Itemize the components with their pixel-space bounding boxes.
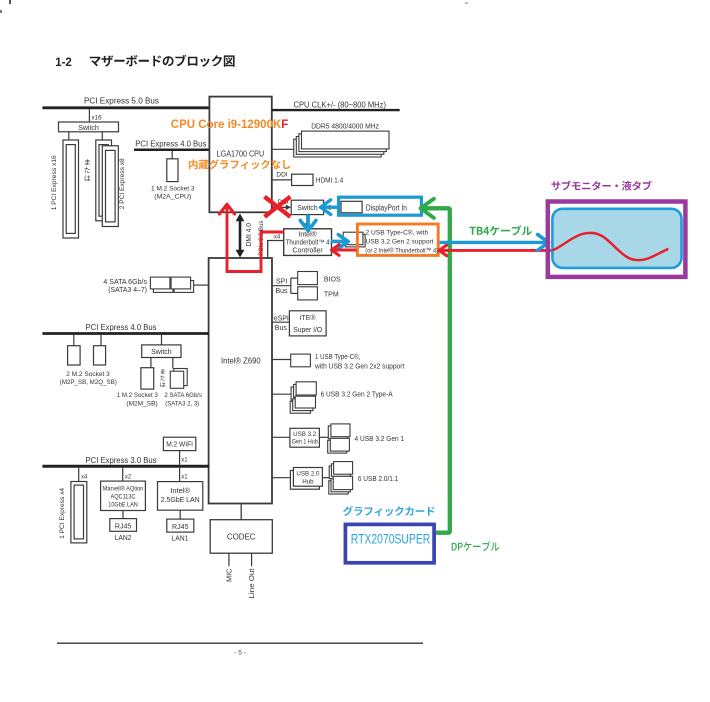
wire PCI Express 4.0 bus line (chipset) <box>42 332 208 335</box>
svg-text:2 PCI Express x8: 2 PCI Express x8 <box>119 158 126 209</box>
wire PCI Express 3.0 bus line <box>42 465 209 468</box>
svg-text:x4: x4 <box>274 235 281 241</box>
BIOS block <box>298 272 341 285</box>
SATA connector pair (SATA3 2,3) <box>170 369 187 389</box>
label PCIe 3.0 Bus (vertical) <box>258 221 265 256</box>
wire chipset to USB 2.0 hub <box>272 477 290 479</box>
svg-text:Bus: Bus <box>275 325 288 332</box>
bus label PCI Express 3.0 Bus <box>86 456 157 465</box>
wire chipset to USB 3.2 gen2 ports <box>272 393 294 395</box>
label または (vertical) <box>85 159 91 181</box>
svg-text:AQC113C: AQC113C <box>111 494 136 501</box>
wire marvell to RJ45 <box>122 511 124 519</box>
wire SATA to chipset <box>194 284 209 286</box>
annotation グラフィックカード <box>343 506 435 516</box>
M.2 socket M2A block <box>167 159 178 182</box>
USB 2.0 port stack upper <box>329 462 352 479</box>
wire switch3 to SATA pair <box>172 358 174 369</box>
wire CPU CLK line <box>272 109 400 111</box>
USB 3.2 gen2 port stack upper <box>291 382 316 400</box>
USB 3.2 gen1 port stack lower <box>328 438 350 453</box>
svg-text:(M2M_SB): (M2M_SB) <box>126 400 157 407</box>
DDR5 DIMM stack <box>294 131 389 157</box>
DMI 4.0 double arrow cpu-chipset <box>236 214 245 258</box>
DisplayPort In port block <box>341 201 362 213</box>
svg-text:x1: x1 <box>181 458 188 464</box>
svg-text:DMI 4.0: DMI 4.0 <box>246 223 253 247</box>
wire bus to switch1 <box>88 109 90 122</box>
svg-text:Intel®: Intel® <box>170 486 190 495</box>
svg-text:Switch: Switch <box>151 349 172 356</box>
TPM block <box>298 287 339 300</box>
PCI Express x16 slot <box>63 140 79 238</box>
label CPU CLK+/- (80~800 MHz) <box>294 100 387 109</box>
annotation サブモニター・液タブ <box>551 181 652 191</box>
svg-text:(or 2 Intel® Thunderbolt™ 4): (or 2 Intel® Thunderbolt™ 4) <box>365 247 438 255</box>
wire bus to intel lan x1 <box>180 468 189 482</box>
svg-text:(SATA3 4–7): (SATA3 4–7) <box>108 287 147 294</box>
svg-text:DDI: DDI <box>276 171 287 178</box>
svg-text:1 M.2 Socket 3: 1 M.2 Socket 3 <box>117 392 158 399</box>
svg-text:Line Out: Line Out <box>249 568 256 598</box>
wire bus to M2Q socket <box>100 335 102 346</box>
wire chipset to USB 3.2 gen1 hub <box>272 436 290 438</box>
red wire thunderbolt to CPU path <box>219 204 283 271</box>
svg-text:CPU CLK+/- (80~800 MHz): CPU CLK+/- (80~800 MHz) <box>294 100 387 109</box>
wire hub to gen1 ports <box>319 436 328 438</box>
svg-text:1 PCI Express x16: 1 PCI Express x16 <box>51 155 58 210</box>
thunderbolt USB-C highlight box (orange) <box>357 224 438 255</box>
wire bus to switch3 <box>161 335 163 345</box>
svg-text:Switch: Switch <box>297 205 318 212</box>
svg-text:1 PCI Express x4: 1 PCI Express x4 <box>59 488 66 539</box>
svg-text:RJ45: RJ45 <box>172 522 189 531</box>
DisplayPort In highlight box (blue) <box>339 197 422 215</box>
page heading 1-2 <box>55 57 72 69</box>
label 2 M.2 Socket 3 (M2P_SB, M2Q_SB) <box>60 371 117 386</box>
label 6 USB 3.2 Gen 2 Type-A <box>321 391 393 398</box>
svg-text:LAN1: LAN1 <box>172 534 189 543</box>
USB 3.2 gen2 port stack lower <box>290 396 315 413</box>
red wire TB4 return line monitor to USB-C box <box>439 245 554 256</box>
monitor screen (tablet) <box>552 209 681 268</box>
svg-text:x16: x16 <box>92 114 103 121</box>
svg-text:2 SATA 6Gb/s: 2 SATA 6Gb/s <box>164 392 202 399</box>
label 1 PCI Express x4 <box>59 488 66 539</box>
wire cpu to DDR5 <box>272 148 295 150</box>
svg-text:4 USB 3.2 Gen 1: 4 USB 3.2 Gen 1 <box>355 436 405 443</box>
label または small (vertical) <box>160 369 165 387</box>
svg-text:Controller: Controller <box>292 248 323 255</box>
label 1 M.2 Socket 3 (M2A_CPU) <box>151 185 195 200</box>
svg-text:with USB 3.2 Gen 2x2 support: with USB 3.2 Gen 2x2 support <box>314 363 404 370</box>
svg-text:iTE®: iTE® <box>300 314 317 322</box>
svg-text:1 M.2 Socket 3: 1 M.2 Socket 3 <box>151 185 195 192</box>
blue arrow switch2 down to controller <box>300 214 316 230</box>
label 2 PCI Express x8 <box>119 158 126 209</box>
svg-text:MIC: MIC <box>226 569 233 583</box>
label SPI Bus <box>276 279 289 296</box>
label RTX2070SUPER <box>351 531 431 547</box>
wire bus to M2A socket <box>171 151 173 159</box>
footer page number <box>234 649 246 656</box>
intel 2.5GbE lan block <box>158 482 203 511</box>
svg-text:RJ45: RJ45 <box>115 521 132 530</box>
switch block SW3 <box>142 345 181 358</box>
svg-text:Super I/O: Super I/O <box>293 327 323 334</box>
annotation DPケーブル <box>452 541 500 551</box>
svg-text:TPM: TPM <box>324 291 339 298</box>
svg-text:Marvell® AQtion: Marvell® AQtion <box>103 486 144 493</box>
codec block <box>210 520 272 554</box>
label 1 PCI Express x16 <box>51 155 58 210</box>
M.2 socket M2Q block <box>94 346 106 365</box>
M.2 WIFI block <box>163 437 195 450</box>
svg-text:Intel® Z690: Intel® Z690 <box>221 355 261 365</box>
super io block iTE <box>289 311 326 336</box>
blue arrow controller to USB-C port <box>331 235 349 249</box>
svg-text:1-2: 1-2 <box>55 57 72 69</box>
svg-text:Thunderbolt™ 4: Thunderbolt™ 4 <box>286 240 330 247</box>
svg-text:HDMI 1.4: HDMI 1.4 <box>316 178 343 185</box>
svg-text:x4: x4 <box>81 475 88 481</box>
bus label PCI Express 4.0 Bus (chipset) <box>86 323 157 332</box>
svg-text:x1: x1 <box>181 475 188 481</box>
PCI Express x8 slot pair <box>96 140 119 227</box>
label 4 USB 3.2 Gen 1 <box>355 436 405 443</box>
svg-text:SPI: SPI <box>276 279 287 286</box>
wire bus to marvell lan x2 <box>123 468 132 481</box>
HDMI port block <box>292 174 344 185</box>
wire bus to PCIe x4 slot <box>79 468 88 482</box>
svg-text:M.2 WIFI: M.2 WIFI <box>166 442 193 449</box>
svg-text:Hub: Hub <box>302 478 314 485</box>
monitor outline box (purple) <box>548 202 686 277</box>
cpu block LGA1700 <box>209 97 271 213</box>
svg-text:(SATA3 2, 3): (SATA3 2, 3) <box>165 400 199 407</box>
label 4 SATA 6Gb/s (SATA3 4-7) <box>103 279 147 294</box>
svg-text:RTX2070SUPER: RTX2070SUPER <box>351 531 431 547</box>
M.2 socket M2M block <box>141 368 154 389</box>
label x16 <box>92 114 103 121</box>
svg-text:(M2A_CPU): (M2A_CPU) <box>154 193 191 200</box>
USB type-C 2x2 port block <box>291 354 311 367</box>
wire cpu to HDMI port <box>272 179 292 181</box>
svg-text:2.5GbE LAN: 2.5GbE LAN <box>161 495 200 504</box>
black arrow DisplayPort In to switch2 <box>325 205 337 211</box>
marvell aqtion lan block <box>101 481 146 510</box>
svg-text:4 SATA 6Gb/s: 4 SATA 6Gb/s <box>103 279 147 286</box>
svg-text:(M2P_SB, M2Q_SB): (M2P_SB, M2Q_SB) <box>60 379 117 386</box>
wire chipset SPI bus <box>272 278 298 293</box>
label DisplayPort In <box>366 203 407 212</box>
wire hub to usb2 ports <box>322 477 331 479</box>
wire codec MIC <box>228 553 230 566</box>
label 2 USB Type-C with USB 3.2 Gen 2 support <box>365 229 438 255</box>
svg-text:2 USB Type-C®, with: 2 USB Type-C®, with <box>366 229 429 237</box>
green arrowhead into DisplayPort In <box>421 199 434 218</box>
svg-text:- 5 -: - 5 - <box>234 649 246 656</box>
green wire DP cable from RTX to DisplayPort In <box>422 208 450 532</box>
red pen squiggle on screen <box>553 233 669 260</box>
USB 2.0 port stack lower <box>329 476 353 494</box>
svg-text:CODEC: CODEC <box>227 533 256 542</box>
label 1 USB Type-C with USB 3.2 Gen 2x2 support <box>314 353 404 370</box>
RJ45 LAN1 block <box>167 519 194 532</box>
page heading title マザーボードのブロック図 <box>90 55 235 67</box>
svg-text:PCI Express 3.0 Bus: PCI Express 3.0 Bus <box>86 456 157 465</box>
wire chipset eSPI bus <box>272 321 289 323</box>
blue wire TB4 cable to monitor <box>440 235 549 251</box>
annotation TB4ケーブル <box>470 225 532 235</box>
wire chipset to codec <box>240 504 242 520</box>
chipset block Intel Z690 <box>209 258 272 504</box>
thunderbolt controller block U1 <box>284 229 332 256</box>
label LAN1 <box>172 534 189 543</box>
svg-text:PCI Express 4.0 Bus: PCI Express 4.0 Bus <box>86 323 157 332</box>
label DMI 4.0 <box>246 223 253 247</box>
svg-text:1 USB Type-C®,: 1 USB Type-C®, <box>315 353 360 361</box>
svg-text:LGA1700 CPU: LGA1700 CPU <box>217 149 265 159</box>
svg-text:USB 3.2: USB 3.2 <box>293 431 317 438</box>
blue arrow DisplayPort In to switch2 <box>321 200 338 215</box>
svg-text:DDR5 4800/4000 MHz: DDR5 4800/4000 MHz <box>311 123 379 130</box>
label 6 USB 2.0/1.1 <box>358 476 398 483</box>
wire cpu to switch2 with arrow <box>272 205 291 211</box>
switch block SW1 <box>59 122 119 132</box>
label 2 SATA 6Gb/s (SATA3 2, 3) <box>164 392 202 407</box>
wire switch3 to M2M socket <box>150 358 152 368</box>
wire switch1 to slot x8 <box>101 132 103 140</box>
svg-text:6 USB 3.2 Gen 2 Type-A: 6 USB 3.2 Gen 2 Type-A <box>321 391 393 398</box>
wire switch1 to slot x16 <box>68 132 70 140</box>
scan speck marks <box>0 0 468 13</box>
svg-text:10GbE LAN: 10GbE LAN <box>108 501 138 508</box>
label eSPI Bus <box>274 316 289 333</box>
wire chipset to USB type-C port <box>272 359 291 361</box>
svg-text:USB 2.0: USB 2.0 <box>296 471 320 478</box>
svg-text:PCI Express 5.0 Bus: PCI Express 5.0 Bus <box>84 97 159 106</box>
wire M.2 WIFI to bus x1 <box>180 451 189 465</box>
footer rule <box>57 642 423 644</box>
label DDI (DisplayPort) <box>278 199 289 206</box>
svg-text:DisplayPort In: DisplayPort In <box>366 203 407 212</box>
annotation CPU Core i9-12900KF <box>171 118 289 131</box>
RJ45 LAN2 block <box>110 519 137 532</box>
switch block SW2 (display) <box>291 200 323 214</box>
svg-text:LAN2: LAN2 <box>115 533 132 542</box>
svg-text:2 M.2 Socket 3: 2 M.2 Socket 3 <box>66 371 110 378</box>
label LAN2 <box>115 533 132 542</box>
svg-text:x2: x2 <box>125 475 132 481</box>
wire codec Line Out <box>251 553 253 566</box>
label DDI (HDMI) <box>276 171 287 178</box>
graphics card box RTX2070SUPER <box>345 524 434 562</box>
red X cross over DDI wire <box>265 197 291 217</box>
wire chipset to thunderbolt controller x4 <box>268 241 284 259</box>
black arrow switch2 down to thunderbolt controller <box>304 215 310 229</box>
svg-text:6 USB 2.0/1.1: 6 USB 2.0/1.1 <box>358 476 398 483</box>
svg-text:Bus: Bus <box>276 288 289 295</box>
SATA connector stack A <box>150 277 173 292</box>
USB 3.2 gen1 hub block <box>290 428 320 447</box>
svg-text:BIOS: BIOS <box>324 276 341 283</box>
wire PCI Express 5.0 bus line <box>42 106 209 109</box>
annotation 内蔵グラフィックなし <box>189 159 291 169</box>
label DDR5 4800/4000 MHz <box>311 123 379 130</box>
USB 3.2 gen1 port stack upper <box>328 424 350 439</box>
label 1 M.2 Socket 3 (M2M_SB) <box>117 392 158 407</box>
svg-text:eSPI: eSPI <box>274 316 289 323</box>
USB type-C port stack (thunderbolt) <box>343 232 365 247</box>
svg-text:Switch: Switch <box>78 125 99 132</box>
svg-text:CPU Core i9-12900KF: CPU Core i9-12900KF <box>171 118 289 131</box>
wire intel lan to RJ45 <box>179 510 181 519</box>
bus label PCI Express 5.0 Bus <box>84 97 159 106</box>
red arrow USB-C box to controller <box>332 245 357 256</box>
label x4 <box>274 235 281 241</box>
svg-text:Gen 1 Hub: Gen 1 Hub <box>292 439 318 446</box>
M.2 socket M2P block <box>68 346 81 365</box>
wire PCI Express 4.0 bus line (CPU) <box>134 148 209 151</box>
USB 2.0 hub block <box>290 468 322 490</box>
bus label PCI Express 4.0 Bus (CPU) <box>135 139 206 148</box>
svg-text:PCI Express 4.0 Bus: PCI Express 4.0 Bus <box>135 139 206 148</box>
SATA connector stack B <box>171 277 194 292</box>
PCI Express x4 slot <box>71 482 87 543</box>
svg-text:USB 3.2 Gen 2 support: USB 3.2 Gen 2 support <box>366 239 434 246</box>
wire bus to M2P socket <box>73 335 75 346</box>
label Line Out (vertical) <box>249 568 256 598</box>
label MIC (vertical) <box>226 569 233 583</box>
